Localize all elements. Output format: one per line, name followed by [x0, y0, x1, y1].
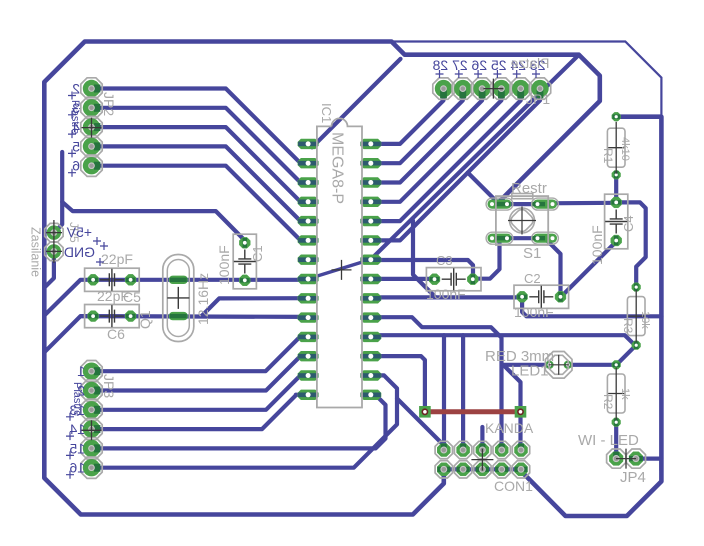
wire C6 row (left edge,C6,Q1,row10L) [44, 316, 308, 352]
svg-text:5: 5 [72, 138, 80, 154]
JP5 plus marks [93, 237, 101, 245]
JP4 origin cross [616, 449, 636, 469]
svg-text:6: 6 [72, 158, 80, 174]
wire LED1 right to R2 top [568, 363, 616, 367]
R2 pads [612, 361, 621, 370]
wire JP1 pin4 to IC right row4 [371, 89, 502, 202]
wire CON1 bottom row link [444, 467, 521, 471]
Q1 crystal outline [163, 255, 194, 342]
svg-text:100nF: 100nF [589, 225, 605, 265]
JP2 pin crosses [68, 92, 76, 177]
wire row11R to R3 bottom [371, 335, 635, 345]
wire JP3 pin3 to IC row13L [92, 375, 309, 409]
C6 body [85, 305, 140, 328]
wire JP5 +5V pad stub [54, 202, 62, 233]
wire JP2 pin4 to IC [92, 146, 309, 220]
svg-text:KANDA: KANDA [485, 420, 534, 436]
svg-text:1k: 1k [619, 388, 631, 400]
wire +5V JP5 to C1 [62, 152, 245, 241]
LED1 pads [545, 361, 572, 369]
wire branch row11 to CON1 col2 [461, 335, 465, 450]
wire row8R to C3 left [371, 277, 435, 281]
C3 pads [429, 274, 440, 285]
svg-text:C4: C4 [621, 215, 636, 232]
R1 pads [612, 112, 621, 121]
JP1 tick marks [436, 70, 541, 78]
JP3 pin crosses [66, 413, 74, 479]
wire JP4 right pad to right edge [636, 457, 662, 461]
svg-text:R3: R3 [621, 318, 635, 334]
wire row12R to square pad [371, 356, 425, 412]
JP2 mirrored pin labels [72, 81, 80, 174]
JP5 origin cross [46, 220, 62, 263]
R1 body [607, 128, 625, 167]
C3 body [426, 268, 481, 291]
svg-text:4k10: 4k10 [619, 137, 631, 161]
svg-text:WI - LED: WI - LED [578, 432, 639, 449]
wire branch row11 to CON1 col1 [442, 335, 446, 450]
wire D1 branch to C2 row [413, 221, 435, 297]
svg-text:12.16Hz: 12.16Hz [195, 273, 211, 325]
IC1 origin cross [332, 260, 352, 280]
wire C5 row (left edge,C5,Q1,C1,row8L) [44, 280, 308, 316]
svg-text:S1: S1 [523, 245, 541, 262]
wire JP1 pin3 to IC right row3 [371, 89, 482, 183]
svg-text:2: 2 [72, 81, 80, 97]
svg-text:+5V: +5V [66, 224, 92, 240]
wire JP2 pin2 to IC [92, 108, 309, 182]
wire big diagonal D1 to IC pin row7 [372, 55, 579, 259]
wire JP1 pin5 to IC right row5 [371, 89, 521, 222]
wire top jog to IC pin row1 [308, 59, 400, 147]
svg-text:14: 14 [69, 421, 85, 437]
svg-text:GND: GND [64, 244, 95, 260]
wire C4 bottom to C2 right [561, 242, 616, 297]
svg-text:Q1: Q1 [137, 310, 153, 329]
svg-text:Zasilanie: Zasilanie [29, 227, 43, 277]
svg-text:R1: R1 [601, 148, 615, 164]
svg-text:100nF: 100nF [216, 245, 232, 285]
svg-text:Restr: Restr [511, 180, 547, 197]
wire C4 top to R3 top [616, 202, 646, 287]
svg-text:C3: C3 [436, 253, 453, 268]
wire C2 left to right edge under R3 [522, 297, 661, 317]
R3 body [627, 297, 645, 336]
wire R2 bottom to JP4 left [614, 422, 618, 458]
wire S1 TL diagonal [468, 173, 500, 205]
svg-text:IC1: IC1 [319, 103, 334, 123]
LED1 outline [545, 352, 572, 379]
svg-text:1: 1 [77, 363, 85, 379]
JP3 mirrored pin labels [69, 363, 85, 476]
svg-text:JP1: JP1 [526, 91, 550, 107]
svg-text:Piastre: Piastre [71, 382, 83, 416]
IC1 pads [298, 139, 382, 400]
wire top layer red trace [425, 409, 521, 414]
JP4 pads [607, 449, 646, 468]
wire C3 right to S1 BL [473, 238, 500, 279]
wire branch to row9L [202, 298, 309, 316]
svg-text:Piastre: Piastre [69, 100, 81, 134]
svg-text:JP2: JP2 [101, 92, 117, 116]
wire JP3 pin1 to IC row11L [92, 336, 309, 371]
wire CON1 col3 stub up [480, 427, 484, 450]
svg-text:100nF: 100nF [426, 286, 466, 302]
wire S1 TR to C4 top [545, 201, 616, 206]
wire GND periphery left+top to S1 [44, 42, 600, 515]
C4 pads [611, 197, 622, 208]
wire row14R J to JP3 pin5 [92, 395, 386, 449]
C5 body [85, 268, 140, 291]
wire JP1 pin1 to IC right row1 [371, 89, 444, 144]
wire LED1 left to square/CON1 col5 [503, 365, 549, 450]
wire row13R J to JP3 pin6 [92, 375, 398, 467]
wire JP2 pin5 to IC [92, 166, 309, 240]
svg-text:JP3: JP3 [101, 374, 117, 398]
wire JP2 pin3 to IC [92, 127, 309, 201]
wire S1 BR to C2 right [545, 238, 561, 297]
C1 body [233, 234, 256, 289]
C5 pads [88, 274, 99, 285]
Q1 pads [169, 276, 188, 321]
wire S1 bottom pads link [500, 236, 546, 240]
svg-text:10k: 10k [639, 311, 651, 329]
S1 pad outlines [486, 198, 558, 244]
svg-text:Platze: Platze [510, 55, 549, 71]
svg-text:C2: C2 [524, 271, 541, 286]
svg-text:15: 15 [69, 440, 85, 456]
wire JP1 pin6 to IC right row6 [371, 89, 540, 241]
R2 body [607, 374, 625, 413]
wire row7R to C3 right [371, 260, 473, 279]
JP1 origin cross [483, 79, 503, 99]
C6 pads [88, 311, 99, 322]
wire R3 bottom to R2 top [617, 346, 636, 365]
S1 body [496, 194, 548, 246]
JP3 origin cross [82, 420, 102, 440]
JP2 origin cross [82, 118, 102, 138]
svg-text:C1: C1 [250, 245, 265, 262]
wire S1 top pads link [500, 202, 546, 206]
wire JP4 vertical stub [659, 459, 663, 470]
svg-text:22pF: 22pF [101, 251, 133, 267]
C2 pads [517, 291, 528, 302]
wire crossing under IC row8L-row7R [308, 259, 371, 279]
wire JP3 pin2 to IC row12L [92, 356, 309, 390]
wire row10R to CON1 col4 [371, 317, 502, 450]
wire JP2 pin1 to IC [92, 89, 309, 163]
svg-text:C5: C5 [123, 289, 141, 305]
JP5 pads [45, 223, 63, 260]
svg-text:16: 16 [69, 460, 85, 476]
wire JP3 pin4 to IC row14L [92, 395, 308, 429]
wire JP1 pin2 to IC right row2 [371, 89, 463, 164]
wire branch outer J to CON1 col1 [397, 399, 444, 446]
wire JP5 GND to left edge [44, 251, 54, 287]
JP3 pads [81, 361, 102, 479]
svg-text:C6: C6 [107, 326, 125, 342]
svg-text:R2: R2 [601, 394, 615, 410]
KANDA square pads [419, 406, 526, 418]
svg-text:JP4: JP4 [620, 469, 646, 486]
wire row9R to C2 left [371, 295, 522, 299]
svg-text:CON1: CON1 [494, 478, 533, 494]
wire R1 bottom to C4 top [614, 175, 618, 203]
wire right edge to JP4 and bottom-right to CON1 [521, 117, 661, 516]
JP1 pads [433, 78, 551, 99]
CON1 origin cross [471, 449, 493, 471]
svg-text:100nF: 100nF [514, 304, 554, 320]
JP2 pads [81, 78, 102, 177]
svg-text:MEGA8-P: MEGA8-P [329, 132, 346, 204]
C2 body [514, 285, 569, 308]
C4 body [605, 194, 628, 249]
svg-text:LED1: LED1 [511, 363, 549, 380]
S1 pads [488, 200, 558, 243]
C1 pads [239, 237, 250, 248]
IC1 outline [317, 118, 362, 407]
R3 pads [632, 283, 641, 292]
wire board outline (dimension) [85, 42, 662, 517]
CON1 pads [435, 441, 530, 478]
